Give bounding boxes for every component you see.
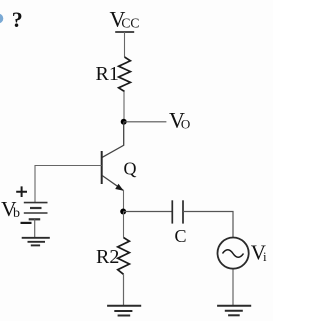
ground (source) <box>217 306 251 316</box>
svg-text:C: C <box>175 226 187 246</box>
transistor Q base bar <box>101 151 103 184</box>
source Vi sine wave <box>223 250 244 258</box>
ground (R2) <box>107 306 141 316</box>
svg-text:VCC: VCC <box>110 7 140 32</box>
transistor Q emitter arrowhead <box>115 184 123 191</box>
wire base from battery <box>35 166 102 203</box>
battery Vb minus sign <box>21 222 32 224</box>
svg-text:R2: R2 <box>96 246 119 268</box>
bullet icon (blue, clipped at left edge) <box>0 14 3 24</box>
wire VCC to R1 <box>124 32 126 57</box>
VCC supply bar <box>115 31 134 33</box>
wire node to VO <box>124 121 167 123</box>
transistor Q collector lead <box>102 122 123 158</box>
wire capacitor to source <box>183 212 233 238</box>
svg-text:R1: R1 <box>96 63 119 85</box>
wire battery to ground <box>34 219 36 238</box>
resistor R2 <box>118 238 130 275</box>
battery Vb plus sign <box>16 186 27 197</box>
wire emitter node to R2 <box>123 212 125 238</box>
svg-text:Q: Q <box>124 159 137 179</box>
capacitor C plates <box>172 200 183 223</box>
wire R2 to ground <box>123 274 125 306</box>
wire emitter to emitter node <box>123 190 125 212</box>
svg-text:VO: VO <box>169 108 190 133</box>
transistor Q emitter lead <box>102 176 123 191</box>
source Vi circle <box>218 238 249 269</box>
wire emitter node to capacitor <box>123 211 172 213</box>
wire R1 to collector node <box>123 92 125 123</box>
wire source to ground <box>232 269 234 305</box>
node collector junction <box>121 119 127 125</box>
battery Vb plates <box>24 203 48 220</box>
svg-text:?: ? <box>12 7 23 32</box>
node emitter junction <box>120 209 126 215</box>
svg-text:Vb: Vb <box>1 197 20 221</box>
svg-text:Vi: Vi <box>251 241 267 265</box>
ground (battery) <box>22 238 50 246</box>
resistor R1 <box>119 57 131 92</box>
